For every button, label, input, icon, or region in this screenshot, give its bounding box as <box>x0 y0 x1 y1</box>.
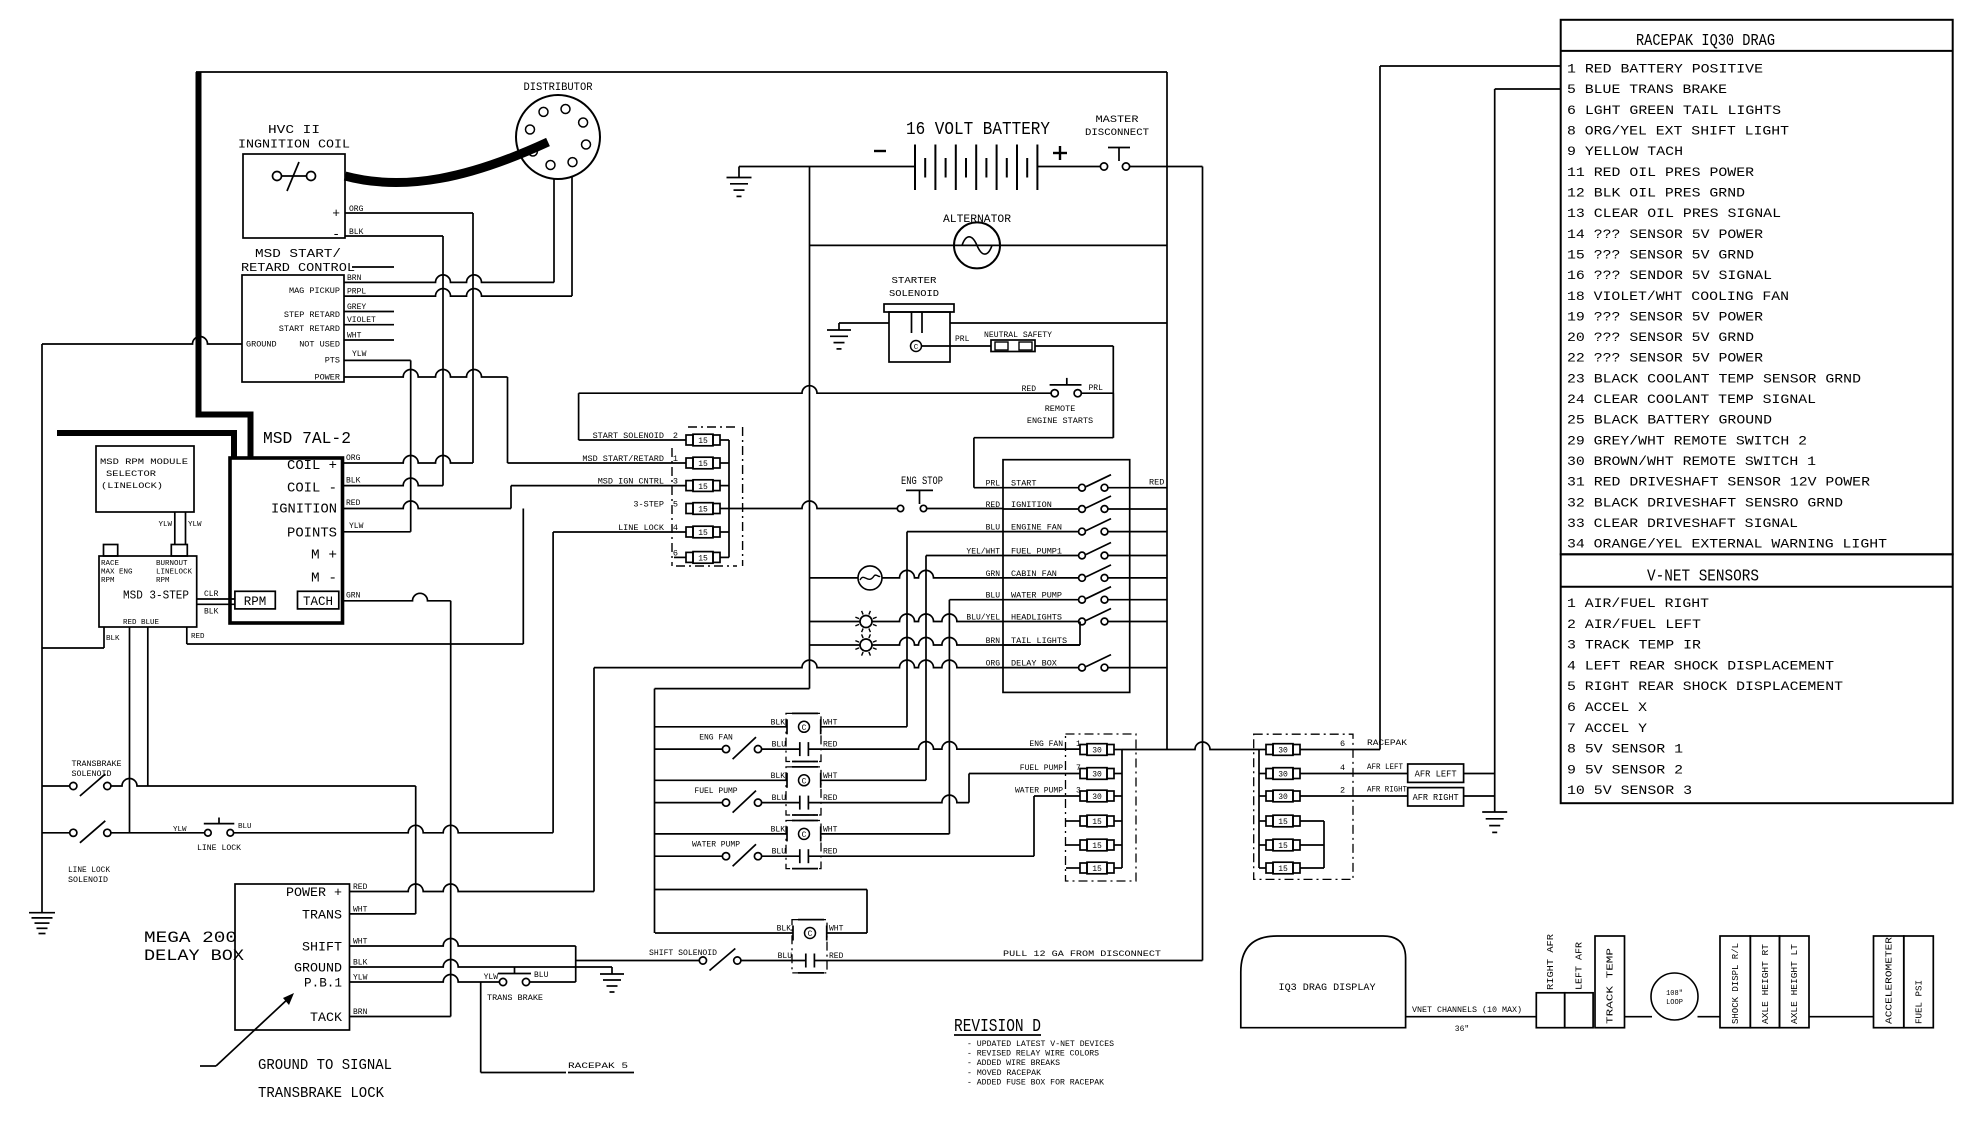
MEGA 200 DELAY BOX box <box>235 884 350 1030</box>
svg-text:22 ??? SENSOR 5V POWER: 22 ??? SENSOR 5V POWER <box>1567 351 1763 366</box>
fuse block dashed outline <box>672 427 743 566</box>
svg-text:33 CLEAR DRIVESHAFT SIGNAL: 33 CLEAR DRIVESHAFT SIGNAL <box>1567 516 1798 531</box>
svg-text:SHIFT: SHIFT <box>302 940 342 955</box>
svg-text:23 BLACK COOLANT TEMP SENSOR G: 23 BLACK COOLANT TEMP SENSOR GRND <box>1567 371 1861 386</box>
switch panel row WATER PUMP <box>986 587 1167 603</box>
svg-text:8 5V SENSOR 1: 8 5V SENSOR 1 <box>1567 742 1683 757</box>
svg-text:AXLE HEIGHT LT: AXLE HEIGHT LT <box>1790 943 1800 1024</box>
HVC II ignition coil box <box>243 154 345 238</box>
svg-text:MASTER: MASTER <box>1096 114 1140 126</box>
wire track temp to loop <box>1625 1016 1653 1018</box>
svg-text:TACH: TACH <box>303 595 333 609</box>
7AL-2 TACH terminal box <box>298 591 339 609</box>
svg-text:RED: RED <box>1022 385 1037 394</box>
svg-text:START RETARD: START RETARD <box>279 324 340 334</box>
wire WHT not used <box>344 339 394 341</box>
svg-text:LEFT AFR: LEFT AFR <box>1575 941 1585 990</box>
water pump relay switch <box>655 844 800 866</box>
MEGA 200 DELAY BOX label <box>144 929 244 965</box>
svg-text:NEUTRAL SAFETY: NEUTRAL SAFETY <box>984 330 1052 340</box>
right fuse group dashed box <box>1254 734 1353 879</box>
svg-text:ENG FAN: ENG FAN <box>1029 740 1063 749</box>
SHOCK DISPL R/L box <box>1720 936 1750 1028</box>
V-NET SENSORS table box <box>1561 554 1953 803</box>
RACEPAK 5 label <box>568 1061 634 1073</box>
left fuse group bus <box>1114 750 1122 869</box>
LINE LOCK SOLENOID label <box>68 866 110 885</box>
wire afr right fuse <box>1300 795 1408 797</box>
main disconnect bus wire <box>1202 167 1204 961</box>
svg-text:ENGINE STARTS: ENGINE STARTS <box>1027 416 1093 426</box>
wire axle to accelerometer <box>1809 1016 1874 1018</box>
headlight lamp <box>855 611 876 632</box>
svg-text:15: 15 <box>698 437 708 446</box>
svg-text:RIGHT AFR: RIGHT AFR <box>1546 933 1556 990</box>
wire afr left fuse <box>1300 773 1408 775</box>
LEFT AFR box <box>1565 941 1593 1027</box>
3-step top tab <box>104 545 118 557</box>
svg-text:VNET CHANNELS (10 MAX): VNET CHANNELS (10 MAX) <box>1412 1006 1522 1015</box>
wire mega tack <box>350 1016 451 1018</box>
switch panel row HEADLIGHTS <box>966 609 1167 625</box>
TRACK TEMP box <box>1595 936 1625 1028</box>
V-NET SENSORS title <box>1647 568 1759 587</box>
wire afr left to bus <box>1464 773 1495 775</box>
svg-text:AFR LEFT: AFR LEFT <box>1415 770 1458 780</box>
right border bus wire <box>1166 72 1168 750</box>
svg-text:WATER PUMP: WATER PUMP <box>1015 787 1063 796</box>
wire POWER to fuse 1 <box>344 370 508 463</box>
alternator <box>954 222 1000 268</box>
coil points symbol <box>273 162 316 191</box>
fuse 30A left group <box>1080 768 1114 780</box>
ACCELEROMETER box <box>1874 936 1904 1028</box>
svg-text:- ADDED WIRE BREAKS: - ADDED WIRE BREAKS <box>967 1059 1060 1068</box>
wire YLW pts <box>344 360 411 531</box>
afr ground bus wire <box>1494 89 1496 812</box>
svg-text:REMOTE: REMOTE <box>1045 404 1076 414</box>
NEUTRAL SAFETY switch <box>984 330 1052 352</box>
svg-text:RPM: RPM <box>244 595 267 609</box>
svg-text:10 5V SENSOR 3: 10 5V SENSOR 3 <box>1567 783 1692 798</box>
svg-text:YLW: YLW <box>158 521 172 529</box>
mega wire color labels <box>353 883 368 1017</box>
wire racepak pin1 <box>1380 65 1561 67</box>
svg-text:NOT USED: NOT USED <box>299 340 340 350</box>
svg-text:IGNITION: IGNITION <box>271 502 337 518</box>
svg-text:11 RED OIL PRES POWER: 11 RED OIL PRES POWER <box>1567 165 1754 180</box>
svg-text:BLK: BLK <box>106 635 120 643</box>
wire fuse feed to racepak fuses <box>1122 742 1259 749</box>
relay ENG FAN <box>699 713 837 761</box>
distributor <box>516 95 600 179</box>
svg-text:30: 30 <box>1092 793 1102 802</box>
tail light lamp <box>855 634 876 655</box>
svg-text:MAG PICKUP: MAG PICKUP <box>289 286 340 296</box>
svg-text:RACE: RACE <box>101 560 120 568</box>
coil + terminal <box>332 205 363 221</box>
svg-text:- MOVED RACEPAK: - MOVED RACEPAK <box>967 1069 1041 1078</box>
108 inch loop <box>1651 973 1698 1020</box>
svg-text:DELAY BOX: DELAY BOX <box>144 947 244 965</box>
wire fuel pump relay WHT <box>821 779 926 781</box>
switch panel row DELAY BOX <box>986 655 1167 671</box>
svg-text:3 TRACK TEMP IR: 3 TRACK TEMP IR <box>1567 638 1701 653</box>
svg-text:3: 3 <box>1076 787 1081 796</box>
svg-text:YLW: YLW <box>349 522 364 531</box>
wire water pump relay RED to fuse <box>808 796 1080 856</box>
svg-text:LINE LOCK: LINE LOCK <box>68 866 110 875</box>
wire RED 3-step down <box>129 627 131 833</box>
svg-text:FUEL PUMP: FUEL PUMP <box>694 787 737 796</box>
svg-text:25 BLACK BATTERY GROUND: 25 BLACK BATTERY GROUND <box>1567 413 1772 428</box>
wire main ignition feed <box>729 501 897 508</box>
svg-text:6 ACCEL X: 6 ACCEL X <box>1567 700 1647 715</box>
svg-text:RPM: RPM <box>101 577 115 585</box>
svg-text:14 ??? SENSOR 5V POWER: 14 ??? SENSOR 5V POWER <box>1567 227 1763 242</box>
afr ground <box>1482 812 1507 832</box>
relay SHIFT <box>777 920 844 973</box>
svg-text:C: C <box>808 930 813 939</box>
wire solenoid feed <box>950 322 1167 324</box>
wire disconnect output <box>1130 166 1203 168</box>
svg-text:16 ??? SENDOR 5V SIGNAL: 16 ??? SENDOR 5V SIGNAL <box>1567 268 1772 283</box>
svg-text:- UPDATED LATEST V-NET DEVICES: - UPDATED LATEST V-NET DEVICES <box>967 1040 1114 1049</box>
svg-text:M +: M + <box>311 548 337 564</box>
svg-text:REVISION D: REVISION D <box>954 1017 1041 1037</box>
svg-text:TRANS: TRANS <box>302 908 342 923</box>
fuse 30A racepak group <box>1266 744 1300 756</box>
svg-text:SHIFT SOLENOID: SHIFT SOLENOID <box>649 948 717 958</box>
wire PRPL mag pickup <box>344 289 572 296</box>
svg-text:YLW: YLW <box>173 826 187 834</box>
wire mega shift <box>350 939 576 982</box>
svg-text:MAX ENG: MAX ENG <box>101 569 133 577</box>
IQ3 DRAG DISPLAY box <box>1241 936 1406 1028</box>
wire shift relay BLK <box>655 932 793 934</box>
wire line lock row left <box>111 832 204 834</box>
cabin fan symbol <box>858 566 882 590</box>
fuse 15A left group <box>1080 862 1114 874</box>
starter solenoid box <box>884 304 954 362</box>
svg-text:24 CLEAR COOLANT TEMP SIGNAL: 24 CLEAR COOLANT TEMP SIGNAL <box>1567 392 1816 407</box>
svg-text:15: 15 <box>698 460 708 469</box>
svg-text:4 LEFT REAR SHOCK DISPLACEMENT: 4 LEFT REAR SHOCK DISPLACEMENT <box>1567 658 1834 673</box>
svg-text:PRL: PRL <box>955 335 970 344</box>
svg-text:TRANS BRAKE: TRANS BRAKE <box>487 994 543 1003</box>
right fuse group bus <box>1259 750 1266 869</box>
svg-text:MEGA 200: MEGA 200 <box>144 929 237 947</box>
LINE LOCK push button <box>173 818 252 854</box>
racepak channel list <box>1567 62 1887 552</box>
svg-text:AFR LEFT: AFR LEFT <box>1367 762 1403 772</box>
STARTER SOLENOID label <box>889 275 939 299</box>
wire mega pb1 <box>350 975 500 983</box>
relay FUEL PUMP <box>694 767 837 815</box>
svg-text:HVC II: HVC II <box>268 123 320 137</box>
svg-text:6: 6 <box>1340 739 1345 749</box>
svg-text:LINE LOCK: LINE LOCK <box>197 844 241 853</box>
wire mega power+ <box>350 884 595 891</box>
svg-text:15: 15 <box>1278 842 1288 851</box>
revision notes <box>967 1040 1114 1087</box>
start/retard wire color labels <box>347 274 376 359</box>
svg-text:P.B.1: P.B.1 <box>304 976 342 991</box>
mega pin labels <box>286 885 342 1025</box>
svg-text:MSD START/: MSD START/ <box>255 247 341 261</box>
svg-text:(LINELOCK): (LINELOCK) <box>101 481 163 491</box>
svg-text:LOOP: LOOP <box>1666 999 1683 1007</box>
svg-text:RED: RED <box>1149 478 1164 488</box>
distributor mag pickup wire A <box>553 179 555 283</box>
wire battery plus <box>1037 166 1100 168</box>
TRANSBRAKE SOLENOID label <box>72 760 122 779</box>
svg-text:5 BLUE TRANS BRAKE: 5 BLUE TRANS BRAKE <box>1567 82 1727 97</box>
svg-text:RED: RED <box>986 501 1001 510</box>
svg-text:30: 30 <box>1092 771 1102 780</box>
svg-text:RETARD CONTROL: RETARD CONTROL <box>241 261 355 275</box>
svg-text:RACEPAK 5: RACEPAK 5 <box>568 1061 628 1071</box>
svg-text:GRN: GRN <box>346 592 361 601</box>
svg-text:ACCELEROMETER: ACCELEROMETER <box>1885 936 1895 1024</box>
wire RED 3-step to fuse 5 <box>187 509 524 645</box>
svg-text:FUEL PSI: FUEL PSI <box>1915 980 1925 1024</box>
svg-text:INGNITION COIL: INGNITION COIL <box>238 138 350 152</box>
svg-text:18 VIOLET/WHT COOLING FAN: 18 VIOLET/WHT COOLING FAN <box>1567 289 1789 304</box>
wire racepak5 riser <box>481 982 566 1073</box>
svg-text:STARTER: STARTER <box>892 275 937 286</box>
svg-text:BLK: BLK <box>204 608 219 617</box>
svg-text:LINELOCK: LINELOCK <box>156 569 193 577</box>
svg-text:COIL -: COIL - <box>287 481 337 497</box>
svg-text:WATER PUMP: WATER PUMP <box>692 841 740 850</box>
fuse 15A left group <box>1080 815 1114 827</box>
svg-text:30: 30 <box>1278 793 1288 802</box>
switch panel row IGNITION <box>986 496 1167 512</box>
left ground bus wire <box>41 344 43 913</box>
svg-text:PTS: PTS <box>325 356 340 366</box>
MASTER DISCONNECT switch <box>1085 114 1149 170</box>
transbrake solenoid switch <box>42 774 111 796</box>
fuse 30A left group <box>1080 790 1114 802</box>
svg-text:15: 15 <box>1092 842 1102 851</box>
fuse 15A racepak group <box>1266 839 1300 851</box>
3-step connector block <box>171 545 187 557</box>
svg-text:YLW: YLW <box>352 350 367 359</box>
wire racepak fuse to bus <box>1300 749 1380 751</box>
wire tail lights row <box>810 638 1081 645</box>
wire solenoid C to neutral safety <box>922 335 992 346</box>
svg-text:ENG FAN: ENG FAN <box>699 734 733 743</box>
wire cabin fan row <box>810 570 1004 578</box>
wire POINTS YLW <box>343 531 411 533</box>
svg-text:PRL: PRL <box>1089 384 1104 393</box>
svg-text:15: 15 <box>698 555 708 564</box>
right fuse group spare bus <box>1300 821 1324 868</box>
7AL-2 wire color labels <box>346 454 364 601</box>
svg-text:RPM: RPM <box>156 577 170 585</box>
svg-text:GROUND: GROUND <box>246 340 277 350</box>
wire fuel pump switch to relay <box>926 556 1003 781</box>
svg-text:31 RED DRIVESHAFT SENSOR 12V P: 31 RED DRIVESHAFT SENSOR 12V POWER <box>1567 475 1870 490</box>
wire fuse4 line lock <box>553 531 686 533</box>
svg-text:SOLENOID: SOLENOID <box>68 876 108 885</box>
AXLE HEIGHT RT box <box>1750 936 1779 1028</box>
MSD 7AL-2 label <box>263 430 351 449</box>
battery ground <box>727 167 752 197</box>
svg-text:1: 1 <box>1076 740 1081 749</box>
AFR LEFT box <box>1408 764 1464 782</box>
switch panel row ENGINE FAN <box>986 519 1167 535</box>
wire remote starts <box>579 386 1051 394</box>
fuse 3 (15A) <box>673 477 720 492</box>
svg-text:MSD 3-STEP: MSD 3-STEP <box>123 589 189 603</box>
REMOTE ENGINE STARTS push button <box>1022 378 1104 426</box>
svg-text:30 BROWN/WHT REMOTE SWITCH 1: 30 BROWN/WHT REMOTE SWITCH 1 <box>1567 454 1816 469</box>
svg-text:15: 15 <box>1278 818 1288 827</box>
svg-text:C: C <box>802 777 807 786</box>
svg-text:34 ORANGE/YEL EXTERNAL WARNING: 34 ORANGE/YEL EXTERNAL WARNING LIGHT <box>1567 537 1887 552</box>
MSD START/RETARD CONTROL label <box>241 247 394 275</box>
svg-text:GROUND TO SIGNAL: GROUND TO SIGNAL <box>258 1057 392 1074</box>
wire afr right to bus <box>1464 795 1495 797</box>
svg-text:RED: RED <box>346 499 361 508</box>
svg-text:2 AIR/FUEL LEFT: 2 AIR/FUEL LEFT <box>1567 617 1701 632</box>
svg-text:BLUE: BLUE <box>141 619 160 627</box>
svg-text:DISTRIBUTOR: DISTRIBUTOR <box>524 82 593 94</box>
svg-text:C: C <box>802 724 807 733</box>
wire GROUND to left ground bus <box>42 337 242 345</box>
wire engine fan switch to relay <box>907 532 1003 727</box>
svg-text:ENG STOP: ENG STOP <box>901 476 943 488</box>
relay ground bus wire <box>655 689 868 933</box>
fuse 6 (15A) <box>673 548 720 563</box>
fuse 30A racepak group <box>1266 790 1300 802</box>
svg-text:STEP RETARD: STEP RETARD <box>284 310 340 320</box>
svg-text:SOLENOID: SOLENOID <box>889 288 939 299</box>
wire ORG coil + <box>345 213 473 463</box>
main power vertical bus <box>655 167 810 689</box>
svg-text:4: 4 <box>1340 763 1345 773</box>
7AL-2 pin labels <box>271 458 337 587</box>
wire solenoid to ground <box>839 322 889 324</box>
svg-text:9 YELLOW TACH: 9 YELLOW TACH <box>1567 144 1683 159</box>
wire water pump relay WHT <box>821 833 950 835</box>
wire headlights row <box>810 614 1004 622</box>
wire alternator row <box>810 244 1168 246</box>
svg-text:20 ??? SENSOR 5V GRND: 20 ??? SENSOR 5V GRND <box>1567 330 1754 345</box>
switch panel box <box>1003 460 1130 693</box>
svg-text:RACEPAK IQ30 DRAG: RACEPAK IQ30 DRAG <box>1636 32 1775 51</box>
fuse 30A racepak group <box>1266 768 1300 780</box>
selector labels <box>100 457 188 491</box>
wire water pump switch to relay <box>949 600 1003 834</box>
left fuse group labels <box>1015 740 1081 796</box>
svg-text:30: 30 <box>1278 747 1288 756</box>
svg-text:FUEL PUMP: FUEL PUMP <box>1020 764 1063 773</box>
wire eng fan relay WHT <box>821 726 907 728</box>
wire BRN mag pickup <box>344 275 554 282</box>
svg-text:C: C <box>914 344 919 352</box>
svg-text:TRACK TEMP: TRACK TEMP <box>1606 948 1616 1024</box>
svg-text:TRANSBRAKE: TRANSBRAKE <box>72 760 122 769</box>
svg-text:CLR: CLR <box>204 590 219 599</box>
wire VIOLET start retard <box>344 324 394 326</box>
svg-text:5 RIGHT REAR SHOCK DISPLACEMEN: 5 RIGHT REAR SHOCK DISPLACEMENT <box>1567 679 1843 694</box>
wire delay box row <box>594 660 1003 891</box>
wire trans brake to riser <box>530 981 576 983</box>
wire BLK coil - <box>345 236 443 486</box>
wire GREY step retard <box>344 311 394 313</box>
svg-text:1 AIR/FUEL RIGHT: 1 AIR/FUEL RIGHT <box>1567 596 1709 611</box>
wire remote starts to loop <box>1082 393 1114 438</box>
wire ignition feed to panel <box>927 508 1004 510</box>
fuse 30A left group <box>1080 744 1114 756</box>
svg-text:19 ??? SENSOR 5V POWER: 19 ??? SENSOR 5V POWER <box>1567 309 1763 324</box>
wire mega trans <box>350 786 416 914</box>
panel START RED label <box>1149 478 1164 488</box>
MSD 7AL-2 box <box>230 458 343 623</box>
svg-text:TACK: TACK <box>310 1010 342 1025</box>
right fuse group labels <box>1340 738 1408 796</box>
wire YLW selector A <box>158 512 174 545</box>
wire BLK 3-step to ground bus <box>42 627 120 648</box>
wire CLR rpm <box>197 590 235 599</box>
svg-text:- ADDED FUSE BOX FOR RACEPAK: - ADDED FUSE BOX FOR RACEPAK <box>967 1078 1104 1087</box>
3-step RED BLUE labels <box>123 619 160 627</box>
svg-text:POWER: POWER <box>314 373 340 383</box>
svg-text:ORG: ORG <box>346 454 361 463</box>
fuse 15A racepak group <box>1266 815 1300 827</box>
racepak power bus wire <box>1379 66 1381 750</box>
svg-text:V-NET SENSORS: V-NET SENSORS <box>1647 568 1759 587</box>
svg-text:15: 15 <box>698 483 708 492</box>
svg-text:9 5V SENSOR 2: 9 5V SENSOR 2 <box>1567 762 1683 777</box>
svg-text:BLK: BLK <box>346 477 361 486</box>
MSD START/RETARD CONTROL box <box>242 275 344 382</box>
svg-text:5: 5 <box>673 500 678 510</box>
svg-text:15: 15 <box>698 529 708 538</box>
v-net sensor list <box>1567 596 1843 798</box>
distributor mag pickup wire B <box>571 177 573 297</box>
fuse labels <box>582 431 665 533</box>
fuse 1 (15A) <box>673 454 720 469</box>
svg-text:DISCONNECT: DISCONNECT <box>1085 127 1149 139</box>
svg-text:16 VOLT BATTERY: 16 VOLT BATTERY <box>906 120 1050 140</box>
FUEL PSI box <box>1904 936 1934 1028</box>
svg-text:IQ3 DRAG DISPLAY: IQ3 DRAG DISPLAY <box>1279 983 1376 994</box>
wire eng fan relay RED to fuse <box>808 742 1080 749</box>
svg-text:-: - <box>332 227 340 242</box>
svg-text:RED: RED <box>123 619 137 627</box>
7AL-2 RPM terminal box <box>235 591 275 609</box>
svg-text:32 BLACK DRIVESHAFT SENSRO GRN: 32 BLACK DRIVESHAFT SENSRO GRND <box>1567 495 1843 510</box>
battery minus sign <box>874 150 886 152</box>
svg-text:MSD RPM MODULE: MSD RPM MODULE <box>100 457 188 467</box>
RIGHT AFR box <box>1536 933 1564 1027</box>
thick power lead into MSD 7AL-2 <box>57 433 234 458</box>
wire line lock vertical <box>552 532 554 833</box>
wire IGNITION RED to fuse 3 <box>343 486 687 509</box>
battery cells <box>915 145 1037 191</box>
solenoid ground <box>827 323 851 349</box>
GROUND TO SIGNAL label <box>258 1057 392 1102</box>
wire transbrake row <box>111 779 416 787</box>
wire pull 12ga from disconnect <box>814 949 1202 961</box>
alternator label <box>943 214 1011 226</box>
svg-text:3: 3 <box>673 477 678 487</box>
switch panel row TAIL LIGHTS <box>986 622 1080 647</box>
